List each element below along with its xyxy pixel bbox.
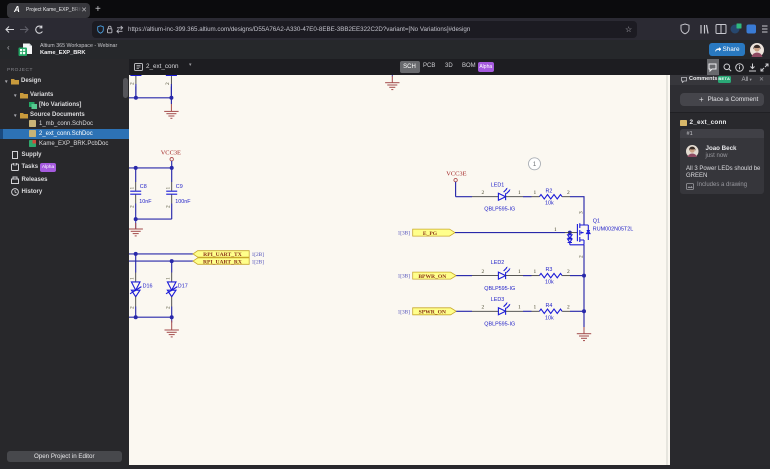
comment card: [680, 129, 764, 194]
wire RPI_UART_RX net: [129, 260, 193, 262]
diode D17 (TVS): [165, 272, 187, 309]
wire R2 to Q1 drain: [570, 196, 584, 224]
transistor Q1 RUM002N05T2L: [554, 211, 633, 258]
wire top-left bus: [129, 86, 171, 104]
svg-text:2: 2: [129, 306, 135, 309]
svg-text:10k: 10k: [545, 315, 554, 321]
svg-text:1: 1: [518, 190, 521, 196]
svg-text:BPWR_ON: BPWR_ON: [418, 273, 446, 279]
junction dot TX/D16: [134, 251, 138, 255]
capacitor (cut off at top, right): [165, 75, 177, 98]
svg-text:C9: C9: [176, 184, 183, 190]
svg-text:3: 3: [579, 211, 585, 214]
svg-text:2: 2: [130, 82, 136, 85]
resistor R4: [532, 302, 571, 320]
svg-text:1[3B]: 1[3B]: [398, 309, 411, 315]
svg-text:100nF: 100nF: [175, 199, 191, 205]
svg-text:1: 1: [534, 304, 537, 310]
svg-text:SPWR_ON: SPWR_ON: [419, 309, 446, 315]
wire SPWR_ON to LED3: [456, 310, 472, 312]
wire D16 top: [135, 253, 137, 272]
wire cap top rail: [129, 167, 172, 181]
LED2: [472, 260, 523, 292]
port E_PG: [398, 229, 455, 237]
svg-text:1: 1: [129, 277, 135, 280]
wire LED3 to R4: [523, 310, 532, 312]
ground GND below C8: [129, 219, 143, 236]
svg-text:QBLP595-IG: QBLP595-IG: [484, 285, 515, 291]
wire VCC3E to LED1: [456, 195, 472, 197]
svg-text:LED1: LED1: [491, 182, 505, 188]
svg-text:D16: D16: [143, 283, 153, 289]
svg-text:R4: R4: [546, 302, 553, 308]
wire D17 top: [171, 261, 173, 272]
svg-text:1[2B]: 1[2B]: [252, 252, 265, 258]
svg-text:1: 1: [534, 190, 537, 196]
svg-text:LED3: LED3: [491, 296, 505, 302]
svg-text:1: 1: [129, 186, 135, 189]
junction dots diode rail: [134, 315, 138, 319]
LED1: [472, 182, 523, 212]
svg-text:1: 1: [518, 304, 521, 310]
wire cap bottom rail: [136, 203, 172, 219]
resistor R3: [532, 267, 571, 285]
junction dot R4: [582, 309, 586, 313]
capacitor (cut off at top, left): [130, 75, 142, 98]
svg-text:VCC3E: VCC3E: [161, 149, 181, 156]
svg-text:Q1: Q1: [593, 218, 600, 224]
wire Q1 source down: [583, 244, 585, 326]
resistor R2: [532, 188, 571, 206]
svg-text:2: 2: [567, 190, 570, 196]
junction dot R3: [582, 273, 586, 277]
capacitor C8: [129, 182, 152, 208]
wire RPI_UART_TX net: [129, 252, 193, 254]
svg-text:10k: 10k: [545, 279, 554, 285]
wire LED2 to R3: [523, 274, 532, 276]
port BPWR_ON: [398, 272, 457, 280]
svg-text:QBLP595-IG: QBLP595-IG: [484, 206, 515, 212]
svg-text:RPI_UART_RX: RPI_UART_RX: [203, 259, 242, 265]
svg-text:RUM002N05T2L: RUM002N05T2L: [593, 226, 633, 232]
svg-text:R2: R2: [546, 188, 553, 194]
left sidebar project tree: [0, 59, 129, 464]
ground GND below D17: [165, 317, 179, 337]
svg-text:1: 1: [165, 277, 171, 280]
svg-text:2: 2: [165, 82, 171, 85]
wire R4 to source net: [570, 310, 584, 312]
capacitor C9: [165, 182, 191, 208]
svg-text:D17: D17: [178, 283, 188, 289]
browser toolbar: [0, 18, 770, 40]
svg-text:QBLP595-IG: QBLP595-IG: [484, 321, 515, 327]
port RPI_UART_RX: [193, 257, 264, 265]
browser tab strip: [0, 0, 770, 18]
svg-text:2: 2: [165, 306, 171, 309]
svg-text:2: 2: [482, 268, 485, 274]
LED3: [472, 296, 523, 327]
ground GND below Q1: [577, 327, 591, 341]
svg-text:2: 2: [567, 304, 570, 310]
comment marker 1: [529, 157, 541, 169]
app header: [0, 40, 770, 59]
svg-text:2: 2: [482, 190, 485, 196]
bottom strip: [129, 465, 770, 469]
svg-text:VCC3E: VCC3E: [446, 170, 466, 177]
junction dot cap bottom: [134, 217, 138, 221]
junction dots cap rail: [134, 165, 138, 169]
ground GND top-right: [385, 75, 399, 90]
canvas scrollbar line: [666, 75, 668, 465]
svg-text:2: 2: [567, 268, 570, 274]
wire BPWR_ON to LED2: [456, 274, 472, 276]
junction dot RX/D17: [170, 259, 174, 263]
wire R3 to source net: [570, 274, 584, 276]
svg-text:10k: 10k: [545, 200, 554, 206]
svg-text:E_PG: E_PG: [423, 230, 438, 236]
wire E_PG to Q1 gate: [455, 231, 565, 233]
junction dots top-left: [134, 95, 138, 99]
svg-text:10nF: 10nF: [139, 199, 152, 205]
svg-text:1[2B]: 1[2B]: [252, 259, 265, 265]
svg-text:2: 2: [129, 205, 135, 208]
document tab bar: [129, 59, 770, 75]
wire LED1 to R2: [523, 195, 532, 197]
port SPWR_ON: [398, 307, 457, 315]
svg-text:R3: R3: [546, 267, 553, 273]
svg-text:1: 1: [165, 186, 171, 189]
svg-text:LED2: LED2: [491, 260, 505, 266]
svg-text:RPI_UART_TX: RPI_UART_TX: [203, 252, 242, 258]
svg-text:1: 1: [554, 226, 557, 232]
schematic canvas: [129, 75, 670, 465]
svg-text:1: 1: [518, 268, 521, 274]
power port VCC3E (over C9): [161, 149, 181, 167]
power port VCC3E (LED1): [446, 170, 466, 196]
svg-text:C8: C8: [140, 184, 147, 190]
svg-text:1[3B]: 1[3B]: [398, 273, 411, 279]
ground GND top-left: [164, 104, 178, 118]
wire diode bottom rail: [129, 306, 172, 317]
port RPI_UART_TX: [193, 250, 264, 258]
svg-text:1: 1: [534, 268, 537, 274]
svg-text:1[3B]: 1[3B]: [398, 230, 411, 236]
svg-text:2: 2: [482, 304, 485, 310]
right comments panel: [670, 75, 770, 469]
diode D16 (TVS): [129, 272, 152, 309]
junction dot gate/zener: [568, 230, 572, 234]
section 2_ext_conn: [680, 120, 687, 126]
svg-text:2: 2: [165, 205, 171, 208]
